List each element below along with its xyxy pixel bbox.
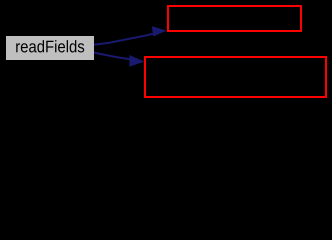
arrowhead	[129, 55, 144, 67]
node bottom (truncated callee, red outline)	[145, 57, 326, 97]
node readFields (current function, grey)	[6, 36, 94, 60]
wire	[94, 53, 131, 60]
node top (truncated callee, red outline)	[168, 6, 301, 31]
edge readFields -> top node	[94, 26, 167, 45]
arrowhead	[152, 26, 167, 36]
edge readFields -> bottom node	[94, 53, 144, 67]
wire	[94, 34, 153, 45]
